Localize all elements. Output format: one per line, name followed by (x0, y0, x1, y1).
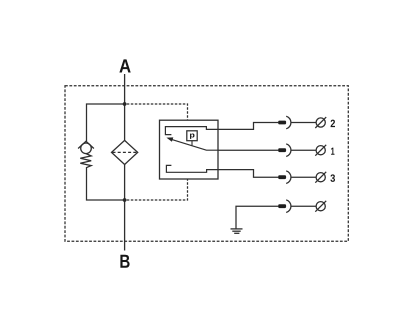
connector pin row 3 (278, 175, 286, 179)
wire: row 3 to screw terminal (291, 176, 316, 178)
port label A (119, 59, 130, 72)
wire: row 2 to screw terminal (291, 122, 316, 124)
screw terminal ground (316, 202, 325, 211)
screw terminal 2 (316, 118, 325, 127)
screw terminal 3 (316, 173, 325, 182)
filter F1 diamond (112, 140, 138, 164)
pressure switch S1 body (160, 120, 219, 179)
pilot line: dashed bottom to pressure switch (127, 179, 188, 200)
wire: top branch to check valve (87, 104, 125, 141)
port label B (120, 255, 129, 268)
check valve V1 seat (78, 141, 94, 148)
connector socket arc ground row (286, 200, 291, 213)
node: bottom junction (123, 198, 127, 202)
contact: movable lever (common, terminal 1) (172, 139, 218, 150)
connector socket arc row 3 (286, 171, 291, 184)
wire: terminal 3 lead with jog (218, 170, 278, 178)
wire: row 1 to screw terminal (291, 149, 316, 151)
connector pin ground row (278, 204, 286, 208)
contact: fixed contact to terminal 2 (165, 127, 218, 135)
wire: terminal 1 lead (218, 149, 278, 151)
filter F1 element dashed line (113, 151, 137, 153)
wire: ground row to screw terminal (291, 205, 316, 207)
pilot line: dashed top to pressure switch (127, 104, 188, 120)
screw terminal 1 (316, 146, 325, 155)
connector pin row 2 (278, 121, 286, 125)
connector pin row 1 (278, 148, 286, 152)
check valve V1 spring (80, 154, 91, 168)
contact lever arrowhead (166, 137, 173, 141)
contact: fixed contact to terminal 3 (166, 165, 218, 172)
wire: bottom branch from check valve (87, 168, 125, 200)
enclosure dashed boundary (65, 86, 348, 242)
wire: actuator link to lever (191, 141, 193, 146)
check valve V1 ball (81, 143, 92, 154)
wire: main line A to B (124, 74, 126, 251)
connector socket arc row 2 (286, 116, 291, 129)
wire: terminal 2 lead with jog (218, 123, 278, 130)
pressure actuator symbol box with p (187, 131, 197, 141)
node: top junction (123, 102, 127, 106)
connector socket arc row 1 (286, 144, 291, 157)
wire: ground lead (236, 206, 278, 229)
ground symbol (231, 228, 243, 230)
